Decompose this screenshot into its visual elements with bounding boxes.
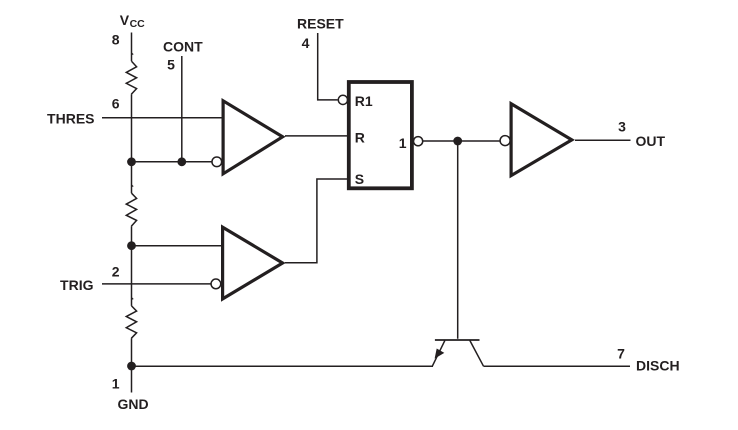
wire THRES input: [102, 117, 223, 119]
wire VCC rail top segment: [131, 33, 133, 62]
svg-text:7: 7: [617, 346, 625, 362]
svg-text:RESET: RESET: [297, 16, 344, 32]
wire node A to comparator U1 inverting input: [132, 161, 213, 163]
transistor Q1: [432, 340, 483, 366]
wire node E to transistor Q1 emitter: [132, 365, 434, 367]
wire buffer output: [575, 139, 631, 141]
wire node C to Q1 base: [457, 141, 459, 339]
resistor R_A: [126, 53, 136, 94]
node A junction dot: [127, 157, 136, 166]
wire VCC rail segment R_A to node A: [131, 94, 133, 162]
svg-text:TRIG: TRIG: [60, 277, 94, 293]
svg-text:S: S: [355, 171, 364, 187]
wire VCC rail node D to R_C: [131, 246, 133, 306]
svg-text:THRES: THRES: [47, 111, 94, 127]
svg-text:R: R: [355, 129, 365, 145]
node D junction dot: [127, 241, 136, 250]
wire CONT input: [181, 56, 183, 162]
op-amp U2 comparator: [223, 227, 283, 299]
inversion bubble comparator U1: [212, 157, 222, 167]
wire Q1 collector to DISCH: [484, 365, 631, 367]
node B junction dot on CONT: [177, 157, 186, 166]
wire VCC rail R_C to node E: [131, 338, 133, 366]
wire TRIG input: [102, 283, 211, 285]
node E junction dot: [127, 362, 136, 371]
latch U3 box: [349, 82, 412, 188]
wire RESET input: [318, 33, 338, 100]
op-amp U4 output buffer: [511, 104, 572, 176]
svg-text:4: 4: [302, 35, 310, 51]
svg-text:OUT: OUT: [636, 133, 666, 149]
svg-text:2: 2: [112, 264, 120, 280]
wire VCC rail node A to R_B: [131, 162, 133, 193]
resistor R_B: [126, 185, 136, 226]
wire GND stub: [131, 366, 133, 393]
resistor R_C: [126, 298, 136, 339]
wire node D to comparator U2 non-inverting input: [132, 245, 224, 247]
svg-text:5: 5: [167, 57, 175, 73]
svg-text:8: 8: [112, 32, 120, 48]
wire latch output to buffer: [423, 140, 500, 142]
svg-text:R1: R1: [355, 93, 373, 109]
svg-text:GND: GND: [118, 396, 149, 412]
inversion bubble latch output: [414, 137, 423, 146]
wire U1 output to latch R input: [285, 135, 348, 137]
inversion bubble buffer input: [500, 136, 510, 146]
svg-text:CC: CC: [130, 18, 146, 30]
inversion bubble latch R1 input: [338, 95, 347, 104]
svg-text:3: 3: [618, 119, 626, 135]
inversion bubble comparator U2: [211, 279, 221, 289]
op-amp U1 comparator: [223, 101, 283, 174]
wire U2 output to latch S input: [285, 179, 348, 263]
svg-text:1: 1: [399, 135, 407, 151]
svg-text:V: V: [120, 12, 130, 28]
svg-text:6: 6: [112, 96, 120, 112]
wire VCC rail R_B to node D: [131, 226, 133, 245]
node C junction dot: [453, 137, 462, 146]
label VCC: [120, 12, 145, 30]
svg-text:DISCH: DISCH: [636, 358, 680, 374]
svg-text:1: 1: [112, 376, 120, 392]
svg-text:CONT: CONT: [163, 39, 203, 55]
